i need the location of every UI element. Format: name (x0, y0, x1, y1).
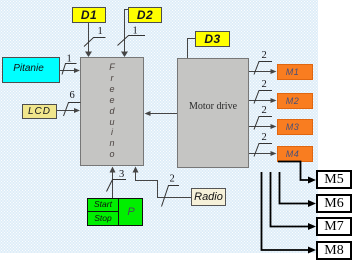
arrowhead into M7 (308, 223, 316, 230)
block Freeduino (80, 57, 144, 166)
wire Motor drive to M3 (249, 126, 271, 128)
block Start/Stop/P (87, 198, 143, 226)
block M7 (316, 217, 352, 236)
wire D3 to Motor drive (188, 39, 196, 59)
bus slash and tick for Start/Stop wire (107, 180, 127, 192)
arrowhead into Freeduino bottom from Start/Stop (110, 167, 116, 173)
arrowhead into Freeduino left from LCD (74, 108, 80, 113)
svg-text:3: 3 (119, 169, 124, 180)
svg-text:2: 2 (262, 132, 267, 143)
svg-text:1: 1 (67, 54, 72, 65)
svg-text:1: 1 (98, 26, 103, 37)
wire to M7 (271, 172, 311, 227)
svg-text:6: 6 (70, 90, 75, 101)
arrowhead into M4 (271, 151, 277, 156)
bus slash and tick for M3 wire (254, 117, 272, 130)
block LCD (22, 104, 57, 119)
arrowhead into M2 (271, 98, 277, 103)
svg-text:1: 1 (133, 26, 138, 37)
wire M4 to M5 (278, 162, 310, 181)
bus slash and tick for Radio wire (162, 186, 180, 207)
arrowhead into Freeduino right from Motor drive (145, 111, 151, 116)
bus slash and tick for M2 wire (254, 91, 272, 104)
Start cell (88, 198, 119, 212)
bus slash and tick for LCD wire (64, 103, 81, 117)
bus slash and tick for M1 wire (254, 62, 272, 75)
P cell (119, 199, 143, 225)
arrowhead into M8 (308, 247, 316, 254)
arrowhead into Freeduino left from Pitanie (74, 68, 80, 73)
wire Radio to Freeduino (136, 171, 192, 198)
svg-text:2: 2 (170, 174, 175, 185)
arrowhead into M1 (271, 69, 277, 74)
block D3 (195, 31, 230, 47)
svg-text:2: 2 (262, 50, 267, 61)
block D2 (128, 7, 162, 23)
block Pitanie (2, 57, 60, 83)
block M2 (277, 93, 313, 109)
arrowhead into M3 (271, 124, 277, 129)
block M5 (316, 170, 352, 189)
Stop cell (88, 212, 119, 225)
Freeduino vertical letters (80, 62, 144, 160)
svg-text:2: 2 (262, 79, 267, 90)
wire D2 to Freeduino (125, 10, 129, 54)
wire Motor drive to Freeduino (150, 113, 178, 115)
block D1 (72, 7, 106, 23)
block Motor drive (177, 58, 249, 168)
arrowhead into M6 (308, 200, 316, 207)
block M3 (277, 119, 313, 135)
wire LCD to Freeduino (57, 110, 76, 112)
bus slash and tick for D2 wire (118, 36, 146, 46)
wire D1 to Freeduino (88, 23, 90, 54)
bus slash and tick for D1 wire (84, 38, 106, 47)
wire to M6 (280, 172, 311, 204)
block M4 (277, 146, 313, 162)
block M6 (316, 194, 352, 213)
arrowhead into Freeduino top from D1 (85, 52, 92, 58)
wire Pitanie to Freeduino (60, 70, 76, 72)
bus slash and tick for Pitanie wire (62, 64, 77, 75)
arrowhead into Freeduino bottom from Radio (133, 167, 139, 173)
block M8 (316, 241, 352, 260)
block Radio (191, 188, 226, 206)
wire to M8 (262, 172, 311, 250)
bus slash and tick for M4 wire (254, 144, 272, 157)
arrowhead into Freeduino top from D2 (121, 52, 128, 58)
arrowhead into M5 (308, 177, 316, 184)
wire Motor drive to M2 (249, 100, 271, 102)
wire Start/Stop to Freeduino (112, 171, 114, 199)
svg-text:2: 2 (262, 105, 267, 116)
wire Motor drive to M4 (249, 153, 271, 155)
block M1 (277, 64, 313, 80)
wire Motor drive to M1 (249, 71, 271, 73)
